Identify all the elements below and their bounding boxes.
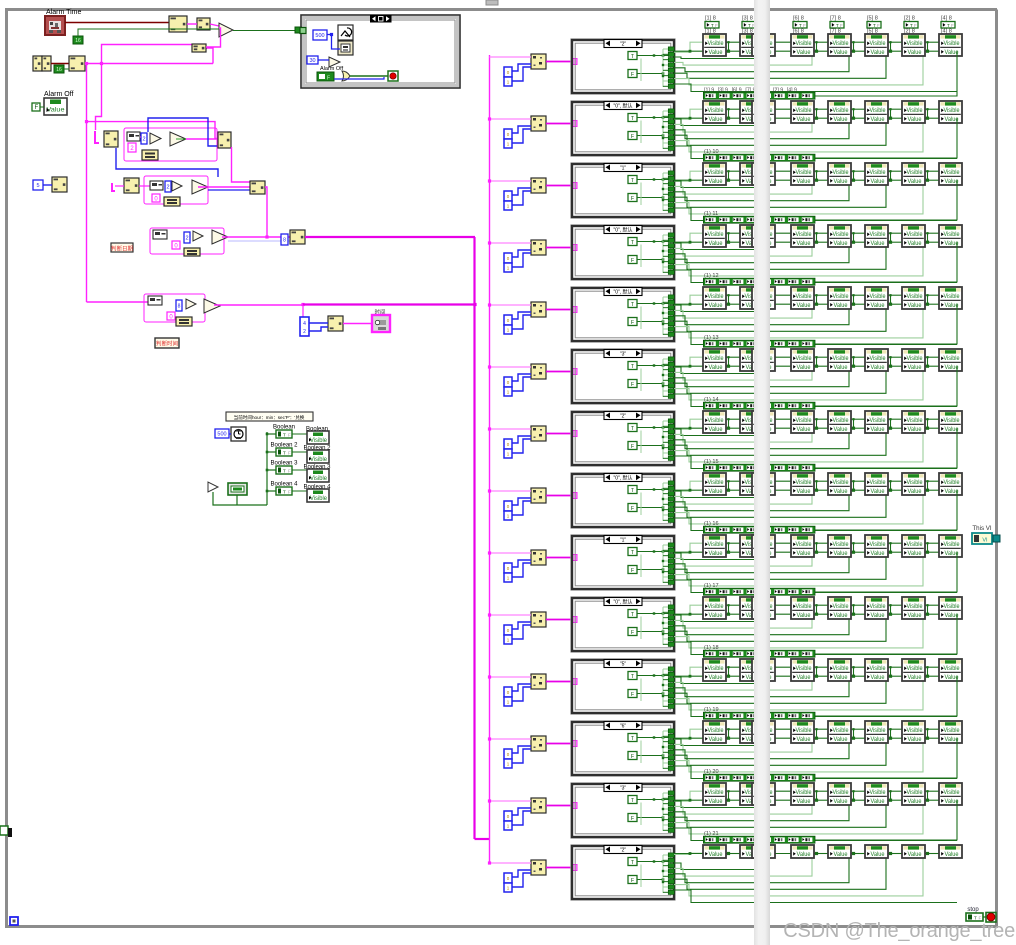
svg-text:[2] 8: [2] 8	[904, 15, 915, 21]
svg-text:Visible: Visible	[907, 356, 924, 362]
svg-text:Visible: Visible	[907, 232, 924, 238]
svg-text:F: F	[327, 76, 330, 82]
svg-text:F: F	[631, 320, 634, 326]
svg-text:判断日期: 判断日期	[111, 245, 134, 253]
svg-text:Visible: Visible	[796, 356, 813, 362]
svg-text:Value: Value	[871, 551, 886, 557]
svg-text:Value: Value	[797, 241, 812, 247]
svg-text:Visible: Visible	[796, 108, 813, 114]
svg-text:Visible: Visible	[708, 232, 725, 238]
svg-text:Value: Value	[797, 50, 812, 56]
svg-text:F: F	[631, 878, 634, 884]
svg-text:F: F	[631, 444, 634, 450]
svg-text:Visible: Visible	[833, 542, 850, 548]
svg-text:Value: Value	[871, 303, 886, 309]
svg-text:16: 16	[75, 38, 81, 44]
svg-text:Visible: Visible	[870, 728, 887, 734]
svg-text:"5": "5"	[620, 661, 627, 667]
svg-text:Visible: Visible	[708, 790, 725, 796]
svg-text:Visible: Visible	[796, 480, 813, 486]
svg-text:Value: Value	[834, 675, 849, 681]
svg-text:Visible: Visible	[870, 604, 887, 610]
svg-text:Visible: Visible	[944, 542, 961, 548]
svg-text:Value: Value	[834, 179, 849, 185]
svg-text:Visible: Visible	[907, 542, 924, 548]
svg-text:F: F	[631, 568, 634, 574]
svg-text:Visible: Visible	[708, 542, 725, 548]
svg-text:8: 8	[178, 304, 181, 310]
svg-text:Visible: Visible	[310, 496, 328, 502]
svg-text:Visible: Visible	[833, 170, 850, 176]
svg-text:[1] 8: [1] 8	[705, 15, 716, 21]
svg-text:Visible: Visible	[796, 41, 813, 47]
svg-text:Value: Value	[871, 799, 886, 805]
svg-text:Value: Value	[908, 613, 923, 619]
svg-text:F: F	[631, 692, 634, 698]
svg-text:Value: Value	[908, 427, 923, 433]
svg-text:Visible: Visible	[310, 476, 328, 482]
svg-text:Visible: Visible	[796, 170, 813, 176]
svg-text:16: 16	[56, 67, 62, 73]
svg-text:Value: Value	[871, 365, 886, 371]
svg-text:Value: Value	[834, 613, 849, 619]
svg-text:Value: Value	[834, 117, 849, 123]
svg-text:Visible: Visible	[708, 666, 725, 672]
svg-text:当前时间hour：min：sec'P'：'兑换: 当前时间hour：min：sec'P'：'兑换	[234, 414, 305, 421]
svg-text:Value: Value	[709, 551, 724, 557]
svg-text:F: F	[631, 382, 634, 388]
svg-text:Value: Value	[709, 117, 724, 123]
svg-text:Visible: Visible	[708, 418, 725, 424]
svg-text:Visible: Visible	[944, 232, 961, 238]
svg-text:[7] 8: [7] 8	[830, 15, 841, 21]
svg-text:Value: Value	[797, 613, 812, 619]
svg-text:stop: stop	[967, 907, 979, 913]
svg-text:"1": "1"	[620, 165, 627, 171]
svg-text:Value: Value	[797, 675, 812, 681]
svg-text:Visible: Visible	[870, 170, 887, 176]
svg-text:Value: Value	[709, 241, 724, 247]
svg-text:2: 2	[303, 329, 306, 335]
svg-text:"0", 默认: "0", 默认	[613, 226, 632, 233]
svg-text:Visible: Visible	[796, 418, 813, 424]
svg-text:Value: Value	[834, 737, 849, 743]
svg-text:CSDN @The_orange_tree: CSDN @The_orange_tree	[783, 920, 1015, 942]
svg-text:Value: Value	[908, 799, 923, 805]
svg-text:Value: Value	[834, 303, 849, 309]
svg-text:2: 2	[185, 236, 188, 242]
svg-text:Value: Value	[797, 737, 812, 743]
svg-text:Visible: Visible	[708, 356, 725, 362]
svg-text:Visible: Visible	[907, 418, 924, 424]
svg-text:F: F	[715, 23, 718, 28]
svg-text:Value: Value	[834, 241, 849, 247]
svg-text:T: T	[283, 490, 286, 495]
svg-text:Visible: Visible	[833, 418, 850, 424]
svg-text:Visible: Visible	[944, 418, 961, 424]
svg-text:Value: Value	[797, 799, 812, 805]
svg-text:Value: Value	[709, 50, 724, 56]
svg-text:Value: Value	[709, 427, 724, 433]
svg-text:Alarm Off: Alarm Off	[44, 91, 73, 98]
svg-text:Value: Value	[834, 489, 849, 495]
svg-text:Value: Value	[871, 613, 886, 619]
svg-text:Value: Value	[908, 551, 923, 557]
svg-text:5: 5	[36, 183, 39, 189]
svg-text:Visible: Visible	[907, 41, 924, 47]
svg-text:Value: Value	[709, 737, 724, 743]
svg-text:"2": "2"	[620, 413, 627, 419]
svg-text:Visible: Visible	[870, 108, 887, 114]
svg-text:"6": "6"	[620, 723, 627, 729]
svg-text:Visible: Visible	[907, 294, 924, 300]
svg-text:Value: Value	[908, 303, 923, 309]
svg-text:Value: Value	[797, 365, 812, 371]
svg-text:Visible: Visible	[907, 666, 924, 672]
svg-text:Value: Value	[797, 852, 812, 858]
svg-text:Alarm Time: Alarm Time	[46, 9, 82, 16]
svg-text:Visible: Visible	[833, 41, 850, 47]
svg-text:4: 4	[303, 321, 306, 327]
svg-text:F: F	[877, 23, 880, 28]
svg-text:Visible: Visible	[796, 790, 813, 796]
svg-text:Visible: Visible	[944, 480, 961, 486]
svg-text:F: F	[840, 23, 843, 28]
svg-text:F: F	[288, 469, 291, 474]
svg-text:Visible: Visible	[708, 728, 725, 734]
svg-text:Value: Value	[834, 852, 849, 858]
svg-text:Value: Value	[709, 852, 724, 858]
svg-text:Value: Value	[797, 551, 812, 557]
svg-text:Visible: Visible	[833, 790, 850, 796]
svg-text:Value: Value	[871, 852, 886, 858]
svg-text:Value: Value	[834, 365, 849, 371]
svg-text:Value: Value	[709, 799, 724, 805]
svg-text:Visible: Visible	[870, 790, 887, 796]
svg-text:T: T	[836, 23, 839, 28]
svg-text:Visible: Visible	[944, 294, 961, 300]
svg-text:Visible: Visible	[708, 170, 725, 176]
svg-text:Value: Value	[908, 675, 923, 681]
svg-text:Visible: Visible	[833, 604, 850, 610]
svg-text:"2": "2"	[620, 847, 627, 853]
svg-text:Visible: Visible	[944, 41, 961, 47]
svg-text:Value: Value	[834, 427, 849, 433]
svg-text:Value: Value	[834, 551, 849, 557]
svg-text:Visible: Visible	[310, 438, 328, 444]
svg-text:Visible: Visible	[907, 480, 924, 486]
svg-text:Visible: Visible	[796, 294, 813, 300]
svg-text:Value: Value	[709, 675, 724, 681]
svg-text:Visible: Visible	[796, 728, 813, 734]
svg-text:Visible: Visible	[944, 728, 961, 734]
svg-text:Visible: Visible	[833, 294, 850, 300]
svg-text:Visible: Visible	[870, 666, 887, 672]
svg-text:"0", 默认: "0", 默认	[613, 288, 632, 295]
svg-text:Visible: Visible	[907, 108, 924, 114]
svg-text:Visible: Visible	[708, 294, 725, 300]
svg-text:VI: VI	[982, 538, 988, 544]
svg-text:Value: Value	[834, 50, 849, 56]
svg-text:[3] 8: [3] 8	[742, 15, 753, 21]
svg-text:Visible: Visible	[833, 232, 850, 238]
svg-text:Value: Value	[908, 241, 923, 247]
svg-text:T: T	[283, 433, 286, 438]
svg-text:Value: Value	[797, 489, 812, 495]
svg-text:Visible: Visible	[796, 666, 813, 672]
svg-text:2: 2	[166, 185, 169, 191]
svg-text:8: 8	[283, 238, 286, 244]
svg-text:Visible: Visible	[944, 604, 961, 610]
svg-text:F: F	[631, 196, 634, 202]
svg-text:Visible: Visible	[944, 108, 961, 114]
svg-text:Value: Value	[797, 117, 812, 123]
svg-text:Value: Value	[797, 179, 812, 185]
svg-text:"0", 默认: "0", 默认	[613, 102, 632, 109]
svg-text:[6] 8: [6] 8	[793, 15, 804, 21]
svg-text:F: F	[35, 105, 39, 111]
svg-text:F: F	[631, 816, 634, 822]
svg-text:F: F	[631, 506, 634, 512]
svg-text:F: F	[288, 433, 291, 438]
svg-text:Visible: Visible	[310, 457, 328, 463]
svg-text:Visible: Visible	[796, 604, 813, 610]
svg-text:判断时间: 判断时间	[156, 340, 178, 348]
svg-text:"3": "3"	[620, 351, 627, 357]
svg-text:Value: Value	[871, 241, 886, 247]
svg-text:Value: Value	[908, 50, 923, 56]
svg-text:Visible: Visible	[870, 542, 887, 548]
svg-text:Visible: Visible	[833, 108, 850, 114]
svg-text:Value: Value	[871, 489, 886, 495]
svg-text:Visible: Visible	[907, 790, 924, 796]
svg-text:Visible: Visible	[944, 666, 961, 672]
svg-text:T: T	[283, 469, 286, 474]
svg-text:Value: Value	[709, 365, 724, 371]
svg-text:F: F	[631, 754, 634, 760]
svg-text:F: F	[803, 23, 806, 28]
svg-text:Visible: Visible	[870, 418, 887, 424]
svg-text:Value: Value	[709, 179, 724, 185]
svg-text:Value: Value	[871, 117, 886, 123]
svg-text:Visible: Visible	[796, 542, 813, 548]
svg-text:Value: Value	[945, 852, 960, 858]
svg-text:Value: Value	[834, 799, 849, 805]
svg-text:Value: Value	[871, 675, 886, 681]
svg-text:T: T	[748, 23, 751, 28]
svg-text:Visible: Visible	[870, 356, 887, 362]
svg-text:T: T	[283, 451, 286, 456]
svg-text:Value: Value	[797, 303, 812, 309]
svg-text:30: 30	[309, 58, 315, 64]
svg-text:Value: Value	[709, 303, 724, 309]
svg-text:Value: Value	[908, 365, 923, 371]
svg-text:Value: Value	[709, 613, 724, 619]
svg-text:2: 2	[142, 137, 145, 143]
svg-text:Visible: Visible	[833, 356, 850, 362]
svg-text:Visible: Visible	[796, 232, 813, 238]
svg-text:F: F	[951, 23, 954, 28]
svg-text:Value: Value	[908, 117, 923, 123]
svg-text:This VI: This VI	[972, 525, 992, 532]
svg-text:Alarm Off: Alarm Off	[320, 66, 344, 72]
svg-text:Value: Value	[908, 489, 923, 495]
svg-text:Visible: Visible	[870, 41, 887, 47]
svg-text:Visible: Visible	[870, 294, 887, 300]
svg-text:F: F	[631, 630, 634, 636]
svg-text:F: F	[631, 258, 634, 264]
svg-text:T: T	[947, 23, 950, 28]
svg-text:Visible: Visible	[944, 790, 961, 796]
svg-text:T: T	[873, 23, 876, 28]
svg-text:Visible: Visible	[833, 480, 850, 486]
svg-text:F: F	[288, 451, 291, 456]
svg-text:Visible: Visible	[907, 604, 924, 610]
svg-text:Visible: Visible	[944, 170, 961, 176]
svg-text:Value: Value	[709, 489, 724, 495]
svg-text:"0", 默认: "0", 默认	[613, 598, 632, 605]
svg-text:"1": "1"	[620, 537, 627, 543]
svg-text:Visible: Visible	[708, 41, 725, 47]
svg-text:Value: Value	[871, 50, 886, 56]
svg-text:Value: Value	[797, 427, 812, 433]
svg-text:T: T	[799, 23, 802, 28]
svg-text:[4] 8: [4] 8	[941, 15, 952, 21]
svg-text:F: F	[631, 134, 634, 140]
svg-text:Visible: Visible	[708, 604, 725, 610]
svg-text:Value: Value	[908, 852, 923, 858]
svg-text:Value: Value	[871, 737, 886, 743]
svg-text:"0", 默认: "0", 默认	[613, 474, 632, 481]
svg-text:Visible: Visible	[833, 728, 850, 734]
svg-text:Value: Value	[908, 179, 923, 185]
svg-text:Visible: Visible	[870, 232, 887, 238]
svg-text:Visible: Visible	[870, 480, 887, 486]
svg-text:F: F	[914, 23, 917, 28]
svg-text:Visible: Visible	[944, 356, 961, 362]
svg-text:"2": "2"	[620, 41, 627, 47]
svg-text:T: T	[910, 23, 913, 28]
svg-text:Visible: Visible	[708, 108, 725, 114]
svg-text:[5] 8: [5] 8	[867, 15, 878, 21]
svg-text:Visible: Visible	[708, 480, 725, 486]
svg-text:Value: Value	[908, 737, 923, 743]
svg-text:Value: Value	[871, 427, 886, 433]
svg-text:"3": "3"	[620, 785, 627, 791]
svg-text:Visible: Visible	[907, 170, 924, 176]
svg-text:F: F	[631, 72, 634, 78]
svg-text:T: T	[711, 23, 714, 28]
svg-text:Value: Value	[871, 179, 886, 185]
svg-text:500: 500	[217, 432, 226, 438]
svg-text:F: F	[288, 490, 291, 495]
svg-text:Visible: Visible	[833, 666, 850, 672]
svg-text:Visible: Visible	[907, 728, 924, 734]
svg-text:500: 500	[315, 33, 324, 39]
